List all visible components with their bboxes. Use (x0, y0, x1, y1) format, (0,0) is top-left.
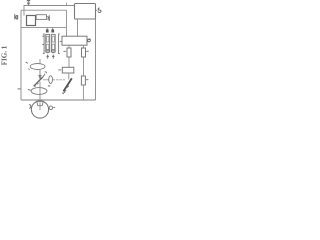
wire B (second horizontal) (21, 9, 67, 11)
label 4 blob right of elongated box (47, 15, 50, 21)
lamp caps (filled) (46, 29, 49, 32)
tube right inner cells (52, 36, 55, 42)
right bracket (59, 34, 60, 54)
right mirror label tick (62, 93, 64, 94)
enclosure bottom wall (21, 99, 96, 101)
tube left bulb (46, 50, 49, 53)
arrow from label 2 down to wire A (27, 1, 29, 6)
leader tick on left wall (18, 88, 21, 90)
enclosure left wall (20, 10, 22, 100)
lamp assembly: hanger stems from top wire (47, 28, 53, 30)
eye left label (29, 105, 31, 109)
wire to small horizontal box (68, 57, 70, 67)
label 4 tick (assembly left, upper) (42, 35, 44, 37)
small vertical lens 11 (49, 76, 53, 84)
hanging rect right under box 12 (83, 45, 85, 48)
its right tick (53, 106, 55, 108)
enclosure top partial wall (21, 27, 67, 29)
wire small box to mirror (68, 73, 70, 79)
left bracket (43, 34, 44, 54)
axis with arrow down to mirror (39, 70, 41, 79)
wire B drop to box 12 (66, 10, 68, 36)
eye small side circle (49, 106, 52, 109)
box 1a (elongated box) (36, 15, 46, 20)
label 7 tick (28, 88, 31, 91)
box 1 (small square source box) (27, 16, 36, 26)
lens 6 (upper ellipse) (30, 64, 45, 70)
tick on wire A (66, 3, 68, 6)
its left tick (63, 50, 66, 52)
axis inside eye (39, 101, 41, 110)
tube right outline (51, 34, 55, 52)
eye lens (inside top) (37, 101, 43, 105)
wire A (top horizontal to box 8) (24, 6, 75, 16)
ground mark under left tube (46, 55, 49, 59)
label 8 tick (96, 9, 98, 11)
horizontal beam between mirrors (43, 79, 49, 81)
box 8 (top right) (75, 4, 96, 20)
label 9 leader + blob (43, 72, 47, 77)
box 12 left tick (60, 40, 62, 42)
its left tick (58, 69, 61, 71)
its right tick (86, 50, 89, 52)
svg-text:FIG. 1: FIG. 1 (0, 45, 8, 65)
enclosure right wall (95, 19, 97, 100)
tube right bulb (52, 50, 55, 53)
its right tick (86, 79, 88, 81)
mirror 9 hatch (35, 83, 39, 87)
tube left outline (46, 34, 50, 52)
lens 7 (lower ellipse) (31, 88, 47, 95)
right wall path: rect element on right vertical (83, 57, 85, 76)
label 6 tick (26, 62, 30, 70)
mirror 9 (left, 45deg) (34, 77, 43, 86)
axis through lens 7 to eye (39, 82, 41, 101)
wire box8 to box12 (77, 19, 79, 36)
label 2 (cropped digit at top) (27, 0, 30, 1)
box 12 (horizontal box) (62, 36, 87, 45)
label 8 (98, 8, 101, 12)
label 1a (left of wall) (15, 14, 18, 19)
eye (large circle) (31, 101, 48, 118)
right mirror hatch (63, 86, 69, 94)
ground mark under right tube (52, 55, 55, 59)
vertical optical axis above lens 6 (39, 59, 41, 63)
hanging rect left under box 12 (68, 45, 70, 48)
mirror (right, thick 45deg) (63, 78, 71, 91)
box 12 right label (87, 39, 90, 42)
tube left inner cells (46, 36, 49, 42)
small horizontal box (above mirror) (62, 67, 74, 73)
label 3 tick (assembly left, lower) (42, 43, 44, 45)
label 11 tick (48, 85, 50, 87)
